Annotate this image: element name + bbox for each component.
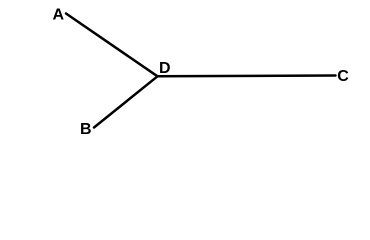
svg-text:A: A [53, 7, 65, 24]
svg-text:D: D [159, 60, 171, 77]
wire A-D [66, 14, 158, 77]
wire B-D [94, 76, 158, 127]
wire D-C [158, 74, 336, 77]
svg-text:B: B [80, 121, 92, 138]
svg-text:C: C [337, 68, 349, 85]
